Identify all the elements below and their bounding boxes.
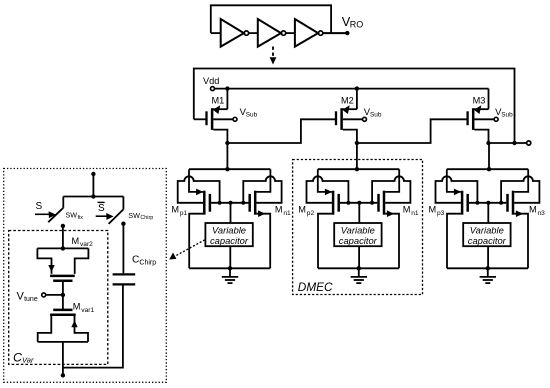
svg-text:p2: p2	[307, 210, 315, 217]
switch SWChirp	[122, 197, 124, 210]
junction: feedback tap dot	[512, 141, 516, 145]
DMEC cell 1	[178, 169, 282, 283]
S control arrow	[35, 213, 50, 215]
switch SWfix	[62, 197, 64, 208]
junction: cell2 top node dot	[355, 167, 359, 171]
DMEC cell 2	[307, 169, 411, 283]
svg-text:M: M	[72, 236, 80, 246]
inverter 3	[295, 19, 323, 47]
svg-text:Chirp: Chirp	[139, 260, 156, 267]
terminal: SWfix lower dot	[61, 224, 65, 228]
svg-text:M1: M1	[212, 95, 225, 105]
varactor Mvar1	[62, 295, 64, 310]
svg-text:var1: var1	[81, 307, 94, 314]
svg-text:M: M	[73, 302, 81, 312]
wire: M2 drain to M3 gate	[357, 119, 468, 143]
wire: M3 drain drop to cell 3	[488, 143, 490, 169]
svg-text:n1: n1	[411, 210, 419, 217]
svg-text:p3: p3	[437, 210, 445, 217]
dashed arrow from ring oscillator to circuit	[272, 47, 274, 58]
terminal: Vtune open circle	[42, 293, 46, 297]
dashed arrow from variable capacitor to CVar box	[174, 240, 205, 257]
inverter 2	[258, 19, 286, 47]
svg-text:M: M	[429, 205, 437, 215]
svg-text:Sub: Sub	[370, 112, 382, 119]
svg-text:p1: p1	[180, 210, 188, 217]
svg-text:SW: SW	[128, 211, 140, 220]
svg-text:RO: RO	[350, 20, 364, 30]
wire: inverter2 to inverter3	[286, 32, 295, 34]
Sbar control arrow	[96, 215, 107, 217]
svg-text:Chirp: Chirp	[140, 215, 153, 221]
svg-text:M: M	[275, 205, 283, 215]
DMEC cell 3	[436, 169, 540, 283]
svg-text:Sub: Sub	[246, 112, 258, 119]
junction: Vdd tap M1	[225, 86, 229, 90]
terminal: CVar top node dot	[91, 172, 95, 176]
svg-text:n3: n3	[538, 210, 546, 217]
inner CVar dashed box	[9, 231, 108, 365]
wire: M3 drain node to output	[489, 142, 527, 144]
wire: M1 drain to M2 gate	[227, 119, 336, 143]
varactor Mvar2	[61, 246, 65, 250]
svg-text:tune: tune	[24, 296, 38, 303]
capacitor CChirp	[122, 224, 124, 274]
wire: Vtune to varactor gates	[46, 294, 63, 296]
svg-text:fix: fix	[78, 215, 84, 221]
junction: cell1 top node dot	[225, 167, 229, 171]
transistor M3	[468, 89, 499, 146]
svg-text:M: M	[529, 205, 537, 215]
ring oscillator feedback wire	[211, 5, 331, 33]
wire: SWfix to Mvar2	[62, 226, 64, 249]
terminal: CVar bottom node dot	[61, 373, 65, 377]
wire: M2 drain drop to cell 2	[356, 143, 358, 169]
wire: M3 drain feedback to M1 gate (top line)	[194, 69, 515, 144]
terminal: VRO output dot	[345, 31, 349, 35]
transistor M2	[336, 89, 367, 146]
junction: Vtune node dot	[61, 293, 65, 297]
wire: bottom node to CChirp	[63, 286, 123, 368]
inverter 1	[221, 19, 249, 47]
svg-text:DMEC: DMEC	[298, 280, 333, 294]
svg-text:M: M	[171, 205, 179, 215]
junction: switch tee dot	[91, 194, 95, 198]
svg-text:C: C	[132, 254, 139, 265]
wire: bottom stub	[62, 368, 64, 374]
svg-text:Var: Var	[22, 356, 34, 365]
svg-text:S: S	[98, 203, 105, 214]
svg-text:M: M	[298, 205, 306, 215]
wire: into inverter 1	[211, 32, 221, 34]
wire: switch tee bar	[63, 196, 123, 198]
svg-text:Sub: Sub	[501, 112, 513, 119]
svg-text:M: M	[403, 205, 411, 215]
svg-text:n1: n1	[283, 210, 291, 217]
terminal: Vdd open circle	[211, 87, 215, 91]
wire: Vdd rail	[215, 88, 489, 90]
svg-text:var2: var2	[80, 241, 93, 248]
svg-text:Vdd: Vdd	[203, 76, 219, 86]
terminal: SWChirp lower dot	[121, 222, 125, 226]
DMEC dashed box	[293, 160, 423, 295]
transistor M1	[207, 89, 238, 146]
terminal: oscillator output open circle	[527, 141, 531, 145]
junction: cell3 top node dot	[487, 167, 491, 171]
svg-text:M3: M3	[473, 95, 486, 105]
wire: M1 drain drop to cell 1	[226, 143, 228, 169]
wire: top node to switch tee	[92, 174, 94, 197]
svg-text:SW: SW	[66, 211, 78, 220]
wire: ring oscillator output	[323, 32, 348, 34]
junction: Vdd tap M2	[355, 86, 359, 90]
svg-text:M2: M2	[341, 95, 354, 105]
svg-text:S: S	[36, 201, 43, 212]
CVar outer dotted box	[4, 169, 167, 383]
wire: inverter1 to inverter2	[249, 32, 258, 34]
wire: M1 gate	[194, 118, 206, 120]
